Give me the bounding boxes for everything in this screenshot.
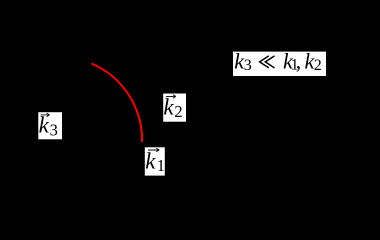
- svg-text:k: k: [163, 94, 174, 119]
- svg-text:3: 3: [50, 120, 58, 139]
- svg-text:2: 2: [174, 102, 182, 121]
- node k2 label: [163, 94, 186, 122]
- svg-text:2: 2: [314, 57, 322, 74]
- node k3 label: [38, 112, 62, 139]
- svg-text:k: k: [145, 148, 156, 173]
- svg-text:k: k: [39, 113, 50, 138]
- wire red arc (rotation arc from k2 toward k3): [92, 64, 143, 143]
- svg-text:,: ,: [296, 49, 302, 74]
- node condition label k3 << k1,k2: [233, 49, 326, 77]
- svg-text:3: 3: [244, 57, 252, 74]
- svg-text:1: 1: [157, 156, 165, 175]
- node k1 label: [145, 147, 165, 175]
